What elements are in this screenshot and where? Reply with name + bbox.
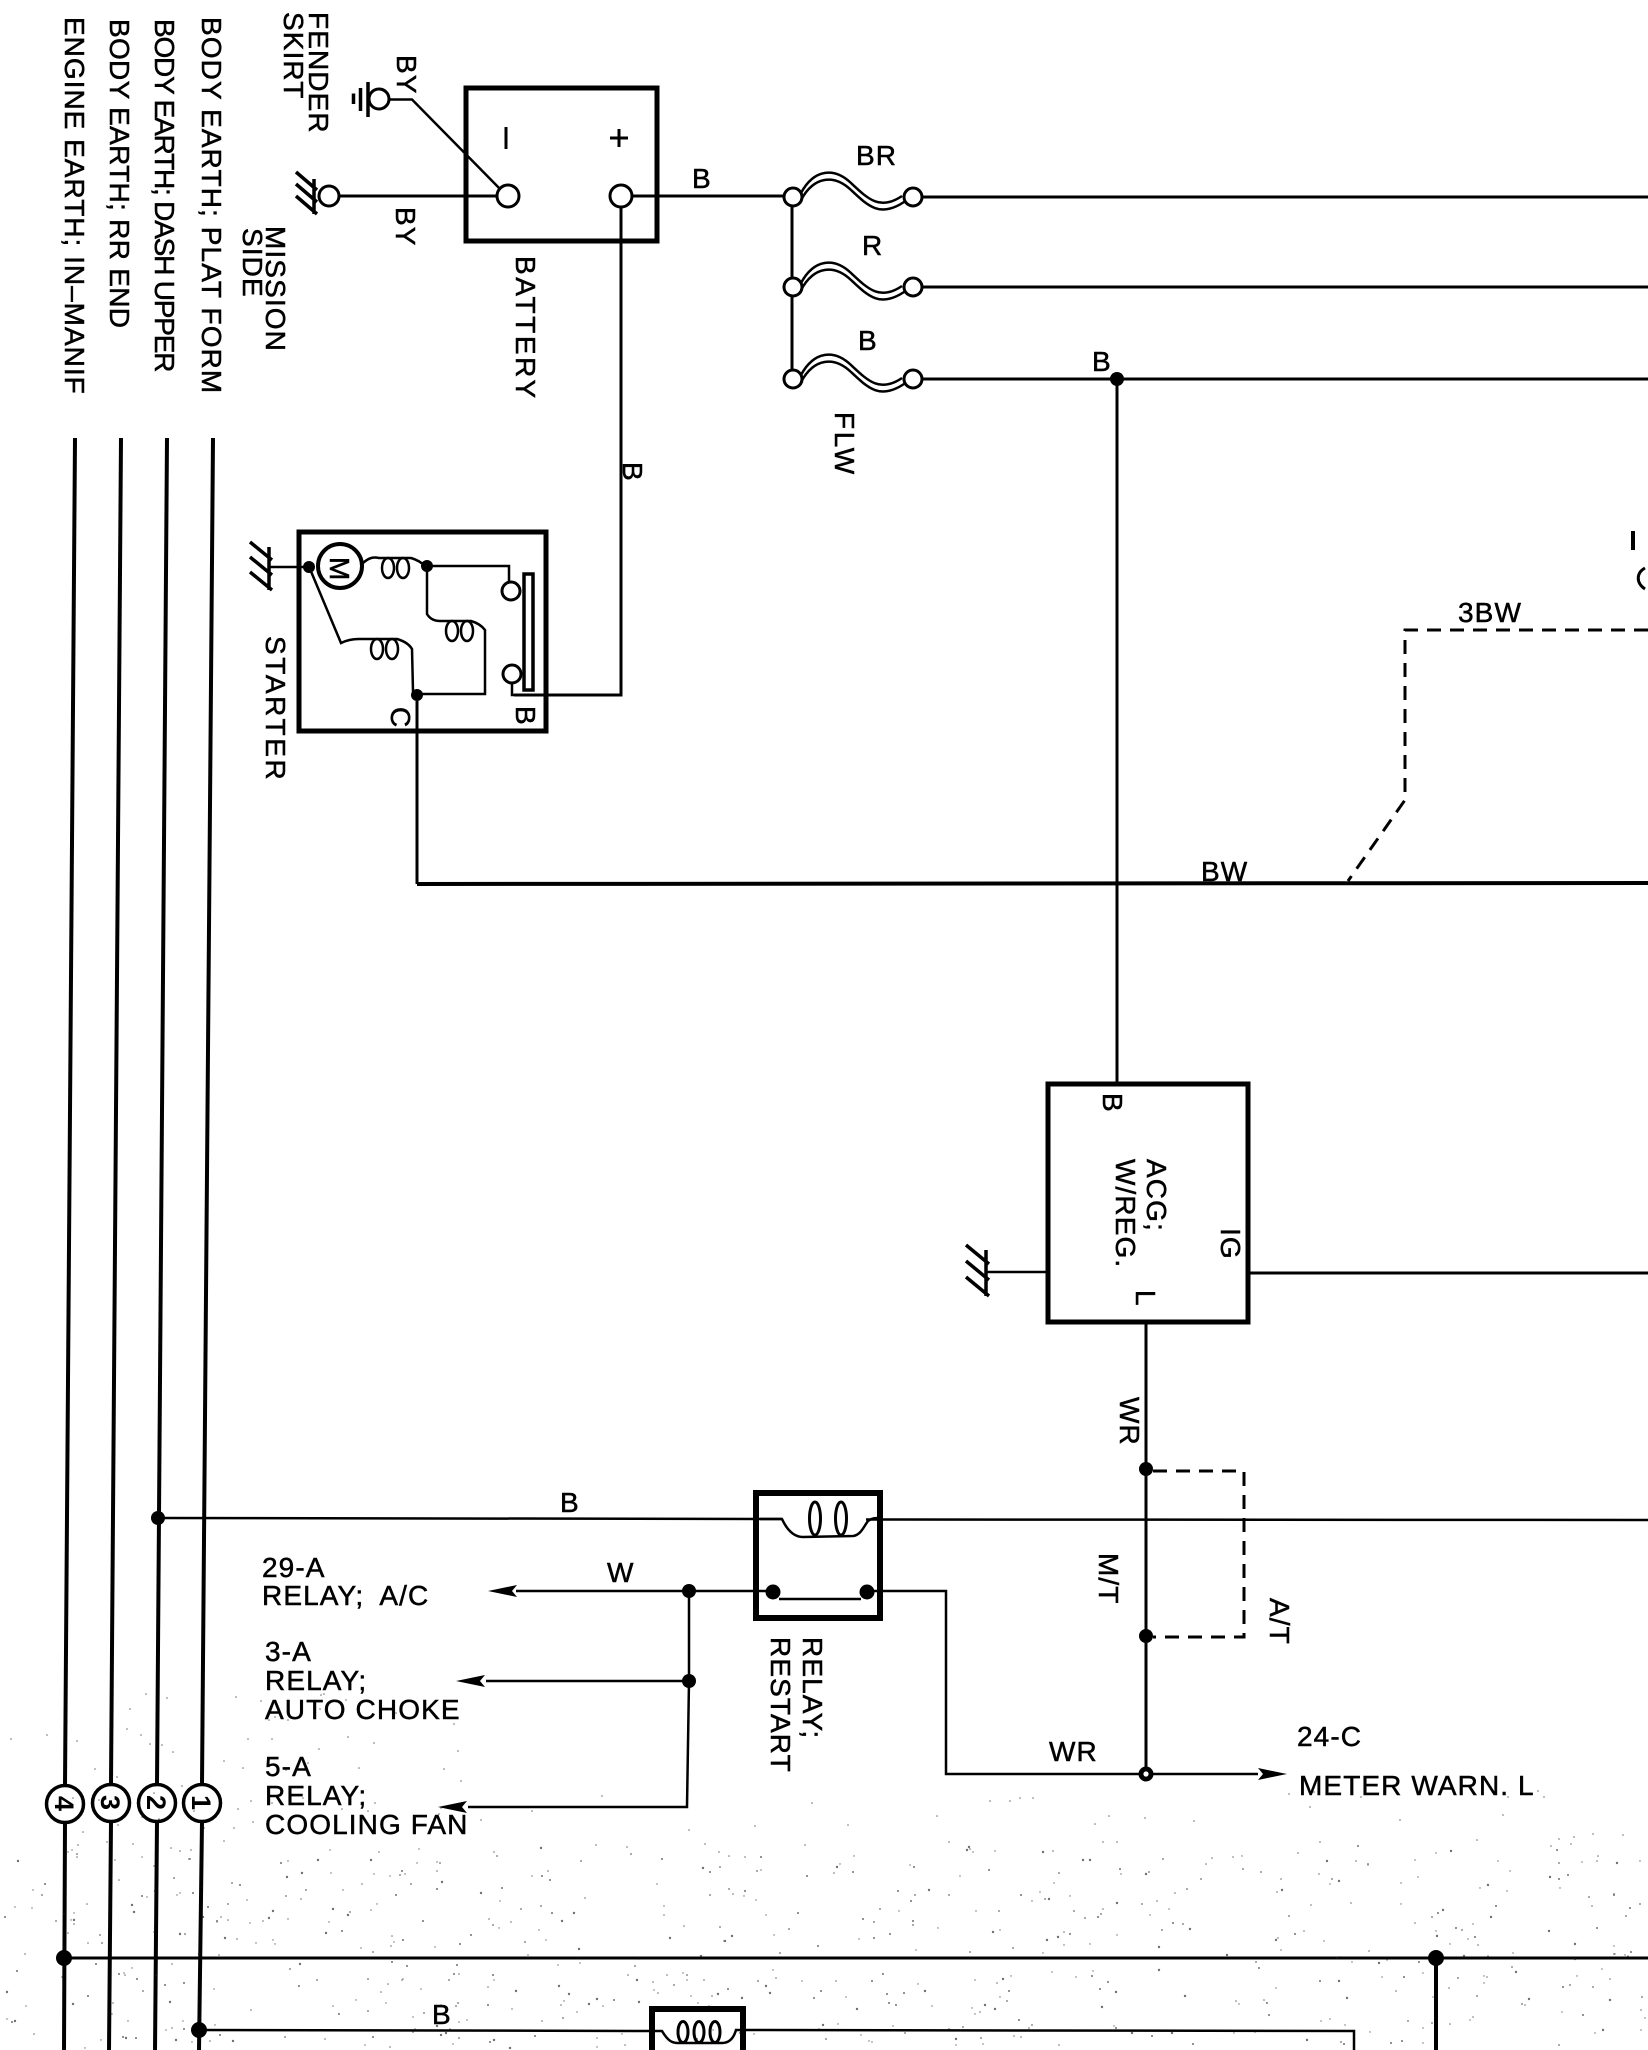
node relay contact left: [766, 1585, 781, 1600]
wire drop from bus A: [1434, 1958, 1438, 2050]
starter hold-in coil: [310, 569, 417, 694]
wire BW to right sheet: [417, 883, 1648, 884]
wire BW starter C terminal: [416, 701, 419, 884]
wire WR from ACG L pin: [1145, 1322, 1148, 1774]
svg-text:BODY EARTH; DASH UPPER: BODY EARTH; DASH UPPER: [149, 19, 180, 371]
wire B battery positive to fusible links: [632, 195, 792, 198]
svg-text:B: B: [560, 1487, 580, 1518]
svg-text:L: L: [1130, 1290, 1161, 1307]
wire B to right sheet: [922, 378, 1648, 381]
wire to auto-choke relay: [456, 1591, 689, 1687]
cut-off label fragment (: [1638, 568, 1645, 589]
svg-text:BW: BW: [1201, 856, 1248, 887]
wire fusible-link feed bus: [791, 197, 794, 379]
svg-text:WR: WR: [1049, 1736, 1098, 1767]
fusible link FLW (R output): [784, 263, 922, 300]
wire W relay to A/C relay: [488, 1585, 773, 1597]
node WR / A-T top junction: [1139, 1462, 1153, 1476]
node body-earth line 2 tap: [151, 1511, 165, 1525]
alternator ACG; W/REG.: [1048, 1084, 1248, 1322]
svg-text:B: B: [510, 706, 541, 726]
node M/T / A-T bottom junction: [1139, 1629, 1153, 1643]
node starter ground junction: [303, 561, 315, 573]
svg-text:BATTERY: BATTERY: [510, 256, 541, 401]
connector number 4: [47, 1786, 84, 1823]
svg-text:M/T: M/T: [1093, 1553, 1124, 1605]
wire 3BW (dashed): [1348, 630, 1648, 881]
scan speckle noise: [4, 1693, 1646, 2049]
svg-text:M: M: [324, 557, 355, 581]
relay coil box (cut at page edge): [652, 2009, 743, 2050]
svg-text:RESTART: RESTART: [765, 1637, 796, 1773]
svg-text:SKIRT: SKIRT: [278, 12, 309, 99]
starter motor M: [318, 544, 362, 588]
svg-text:1: 1: [186, 1795, 216, 1810]
wire A/T bypass (dashed): [1153, 1471, 1244, 1637]
svg-text:B: B: [858, 325, 878, 356]
svg-text:3BW: 3BW: [1458, 597, 1522, 628]
wire R to right sheet: [922, 286, 1648, 289]
node starter C junction: [411, 689, 423, 701]
starter contact bar: [524, 574, 533, 690]
svg-text:B: B: [1097, 1093, 1128, 1113]
wire to cooling-fan relay: [438, 1681, 689, 1813]
starter pull-in coil: [421, 566, 485, 694]
svg-text:B: B: [1092, 346, 1112, 377]
svg-text:FLW: FLW: [829, 412, 860, 477]
wire body-earth dash-upper bus (line 2): [155, 438, 167, 2050]
node WR meter junction: [1139, 1767, 1154, 1782]
ground mission side (chassis symbol): [296, 172, 339, 214]
svg-text:B: B: [692, 163, 712, 194]
node W branch junction: [682, 1584, 696, 1598]
svg-text:SIDE: SIDE: [237, 228, 268, 298]
svg-text:24-C: 24-C: [1297, 1721, 1362, 1752]
svg-text:STARTER: STARTER: [260, 636, 291, 782]
label RELAY; RESTART: [765, 1637, 828, 1773]
svg-text:3-A: 3-A: [265, 1636, 312, 1667]
ground fender skirt (earth symbol): [354, 82, 390, 117]
fusible link FLW (BR output): [784, 173, 922, 210]
svg-text:METER WARN. L: METER WARN. L: [1299, 1770, 1535, 1801]
node B junction to ACG: [1110, 372, 1124, 386]
svg-text:C: C: [385, 707, 416, 728]
label FENDER SKIRT: [278, 12, 334, 134]
wire WR relay output to meter warning lamp: [867, 1591, 1146, 1774]
starter series coil: [362, 558, 425, 578]
wire bottom bus A: [64, 1957, 1648, 1960]
node relay contact right: [860, 1585, 875, 1600]
wire B bottom bus to relay coil: [199, 2030, 1354, 2050]
battery: [466, 88, 657, 241]
node bottom bus A junction: [1428, 1950, 1444, 1966]
svg-text:W: W: [607, 1557, 635, 1588]
svg-text:5-A: 5-A: [265, 1751, 312, 1782]
svg-text:BODY EARTH; RR END: BODY EARTH; RR END: [104, 19, 135, 328]
svg-text:RELAY;: RELAY;: [265, 1665, 367, 1696]
svg-text:BODY EARTH; PLAT FORM: BODY EARTH; PLAT FORM: [196, 17, 227, 394]
svg-text:B: B: [432, 1999, 452, 2030]
svg-text:4: 4: [49, 1796, 79, 1811]
wire B earth bus to relay restart and right sheet: [158, 1518, 1648, 1520]
svg-text:RELAY;: RELAY;: [265, 1780, 367, 1811]
wire lower contact to B terminal: [512, 683, 520, 695]
node platform-earth tap (line B): [191, 2022, 207, 2038]
wire BY fender-skirt to battery negative: [390, 100, 504, 194]
wire B battery positive to starter B terminal: [514, 207, 621, 695]
wire body-earth platform bus (line 1): [199, 438, 213, 2050]
fusible link FLW (B output): [784, 355, 922, 392]
svg-text:ACG;: ACG;: [1141, 1159, 1172, 1232]
svg-text:BY: BY: [390, 207, 421, 247]
wire to moving contact: [427, 566, 509, 582]
svg-text:WR: WR: [1114, 1397, 1145, 1446]
svg-text:3: 3: [95, 1795, 125, 1810]
connector number 1: [184, 1785, 221, 1822]
connector number 2: [139, 1785, 176, 1822]
svg-text:ENGINE EARTH; IN–MANIF: ENGINE EARTH; IN–MANIF: [59, 17, 90, 395]
svg-text:2: 2: [141, 1795, 171, 1810]
wire body-earth RR-end bus (line 3): [109, 438, 121, 2050]
label ACG; W/REG.: [1110, 1159, 1172, 1268]
ground ACG (chassis symbol): [966, 1245, 1048, 1296]
relay; restart: [756, 1493, 880, 1618]
starter contact (lower): [503, 665, 521, 683]
svg-text:B: B: [617, 462, 648, 482]
svg-text:COOLING FAN: COOLING FAN: [265, 1809, 468, 1840]
ground starter (chassis symbol): [250, 542, 309, 590]
wire BY mission ground to battery negative: [339, 195, 497, 198]
wire arrow to 24-C meter warn: [1153, 1768, 1287, 1780]
wire BR to right sheet: [922, 196, 1648, 199]
svg-text:RELAY;: RELAY;: [797, 1637, 828, 1739]
label MISSION SIDE: [237, 226, 291, 352]
cut-off label fragment I: [1631, 531, 1635, 550]
svg-text:AUTO CHOKE: AUTO CHOKE: [265, 1694, 461, 1725]
starter: [299, 532, 546, 731]
wire engine-earth bus (line 4): [64, 438, 75, 2050]
svg-text:R: R: [862, 230, 883, 261]
node starter coil junction: [421, 560, 433, 572]
wire IG to right sheet: [1248, 1272, 1648, 1275]
svg-text:W/REG.: W/REG.: [1110, 1159, 1141, 1268]
svg-text:A/T: A/T: [1264, 1598, 1295, 1645]
starter contact (upper): [502, 582, 520, 600]
wire B down to ACG: [1116, 379, 1119, 1084]
svg-text:RELAY; A/C: RELAY; A/C: [262, 1580, 429, 1611]
connector number 3: [93, 1785, 130, 1822]
svg-text:BY: BY: [391, 55, 422, 95]
svg-text:29-A: 29-A: [262, 1552, 326, 1583]
node choke branch junction: [682, 1674, 696, 1688]
svg-text:BR: BR: [856, 140, 897, 171]
node engine-earth tap (line A): [56, 1950, 72, 1966]
svg-text:IG: IG: [1215, 1228, 1246, 1260]
